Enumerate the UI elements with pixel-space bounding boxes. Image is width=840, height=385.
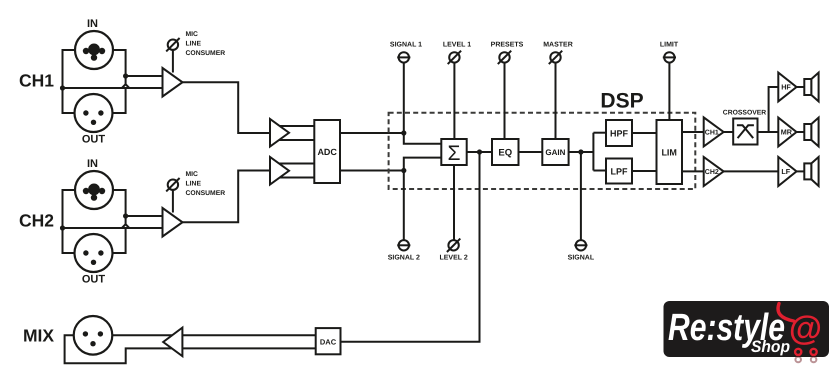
- svg-text:MASTER: MASTER: [543, 42, 573, 49]
- logo cart handle: [778, 304, 793, 322]
- svg-text:LEVEL 2: LEVEL 2: [439, 255, 467, 262]
- speaker LF: [804, 163, 811, 179]
- svg-text:LIM: LIM: [661, 147, 677, 157]
- svg-text:LPF: LPF: [611, 166, 629, 176]
- limiter block U7: [657, 120, 683, 184]
- op-amp A1 input stage CH1: [163, 68, 183, 97]
- DAC converter U9: [316, 328, 341, 354]
- wire DAC to mix amp upper: [112, 334, 315, 336]
- crossover block U8: [733, 119, 757, 145]
- potentiometer MIC/LINE/CONSUMER CH1: [168, 40, 178, 50]
- speaker HF: [804, 79, 811, 95]
- wire SIGNAL1 stem / step into sum: [404, 63, 442, 144]
- svg-text:LIMIT: LIMIT: [660, 42, 679, 49]
- wire CH1 IN/OUT right drop upper: [113, 50, 126, 85]
- label MIC LINE CONSUMER (CH1): [186, 31, 226, 57]
- svg-text:PRESETS: PRESETS: [491, 42, 524, 49]
- svg-text:MIC: MIC: [186, 171, 199, 178]
- svg-text:MIX: MIX: [23, 325, 54, 345]
- svg-text:ADC: ADC: [317, 147, 337, 157]
- amp MR: [778, 118, 796, 147]
- wire crossover out / MR feed: [758, 131, 779, 133]
- svg-text:OUT: OUT: [82, 134, 106, 146]
- logo cart wheel right: [811, 349, 817, 355]
- speaker MR: [804, 124, 811, 140]
- svg-text:CH1: CH1: [19, 71, 54, 91]
- wire filter riser: [592, 133, 594, 171]
- wire buffer B1 balanced pair to ADC: [272, 126, 314, 140]
- junction CH2 amp upper tap: [123, 213, 128, 218]
- svg-text:HF: HF: [781, 83, 791, 92]
- wire HPF to LIM: [632, 132, 657, 134]
- indicator LED SIGNAL 2: [399, 240, 409, 250]
- wire LIM out CH1: [682, 131, 704, 133]
- wire CH1 amp upper input: [126, 75, 163, 77]
- wire MR to speaker: [797, 131, 805, 133]
- svg-text:@: @: [789, 310, 822, 348]
- junction CH2 bus left: [60, 225, 65, 230]
- logo wheel reflections: [795, 357, 816, 363]
- svg-text:LF: LF: [781, 167, 790, 176]
- wire buffer B2 balanced pair to ADC: [272, 164, 314, 178]
- wire CH1 IN/OUT right drop lower: [112, 88, 125, 113]
- wire CH2 amp to LF: [724, 170, 779, 172]
- power amp CH1: [704, 117, 724, 146]
- svg-text:CH2: CH2: [705, 169, 719, 176]
- buffer B1 CH1: [270, 119, 289, 147]
- logo Re:style Shop panel: [664, 301, 830, 357]
- wire into HPF: [593, 132, 606, 134]
- wire PRESETS stem: [504, 63, 506, 139]
- svg-text:CONSUMER: CONSUMER: [186, 190, 226, 197]
- wire LIMIT stem: [668, 63, 670, 120]
- svg-text:LINE: LINE: [186, 40, 202, 47]
- wire ADC out 2: [340, 170, 404, 172]
- junction CH1 amp upper tap: [123, 73, 128, 78]
- svg-text:OUT: OUT: [82, 274, 106, 286]
- junction CH1 bus left: [60, 85, 65, 90]
- wire A2 output to ADC buffer: [183, 171, 271, 223]
- wire ADC out 1: [340, 132, 404, 134]
- wire CH2 IN/OUT left loop: [63, 190, 76, 253]
- svg-text:DSP: DSP: [600, 90, 643, 113]
- wire GAIN output: [569, 151, 594, 153]
- wire CH1 amp to crossover: [724, 131, 734, 133]
- logo cart wheel left: [795, 349, 801, 355]
- wire mix wrap-around lower: [65, 335, 316, 363]
- op-amp A2 input stage CH2: [163, 208, 183, 237]
- wire SIGNAL stem down: [580, 152, 582, 240]
- svg-text:CH2: CH2: [19, 211, 54, 231]
- wire sum bottom stem to LEVEL2: [453, 165, 455, 240]
- HPF block U5: [606, 120, 632, 146]
- svg-text:IN: IN: [87, 18, 98, 30]
- svg-text:LINE: LINE: [186, 180, 202, 187]
- potentiometer LEVEL 2: [448, 240, 458, 250]
- wire into LPF: [593, 170, 606, 172]
- wire LEVEL1 stem: [453, 63, 455, 139]
- svg-text:MR: MR: [781, 128, 793, 137]
- wire CH2 IN/OUT right drop upper: [113, 190, 126, 225]
- svg-text:CONSUMER: CONSUMER: [186, 50, 226, 57]
- svg-text:LEVEL 1: LEVEL 1: [443, 42, 471, 49]
- power amp CH2: [704, 157, 724, 186]
- wire CH1 IN/OUT left loop: [63, 50, 76, 113]
- wire sum output: [467, 151, 492, 153]
- EQ block U3: [492, 139, 519, 165]
- svg-text:SIGNAL 2: SIGNAL 2: [388, 255, 420, 262]
- wire hop over CH1 bus: [122, 84, 129, 88]
- junction DAC tap: [477, 149, 482, 154]
- svg-text:GAIN: GAIN: [545, 148, 565, 157]
- connector J1 XLR combo IN CH1: [75, 31, 113, 69]
- svg-text:Σ: Σ: [448, 142, 461, 165]
- junction SIGNAL tap: [578, 149, 583, 154]
- indicator LED SIGNAL (master): [576, 240, 586, 250]
- buffer B2 CH2: [270, 157, 289, 185]
- svg-text:SIGNAL 1: SIGNAL 1: [390, 42, 422, 49]
- amp LF: [778, 157, 796, 186]
- svg-text:HPF: HPF: [610, 128, 629, 138]
- wire HF to speaker: [797, 86, 805, 88]
- wire CH1 bus: [63, 87, 164, 89]
- svg-text:DAC: DAC: [320, 338, 337, 347]
- svg-text:CH1: CH1: [705, 130, 719, 137]
- connector J4 XLR OUT CH2: [75, 234, 113, 272]
- wire CH2 amp upper input: [126, 215, 163, 217]
- DSP dashed boundary box: [389, 113, 696, 189]
- wire LIM out CH2: [682, 170, 704, 172]
- connector J3 XLR combo IN CH2: [75, 171, 113, 209]
- connector J5 XLR MIX: [74, 316, 113, 355]
- connector J2 XLR OUT CH1: [75, 94, 113, 132]
- label MIC LINE CONSUMER (CH2): [186, 171, 226, 197]
- svg-text:EQ: EQ: [498, 147, 512, 158]
- svg-text:IN: IN: [87, 158, 98, 170]
- svg-text:CROSSOVER: CROSSOVER: [723, 109, 767, 116]
- junction signal2 tap: [401, 168, 406, 173]
- wire hop over CH2 bus: [122, 224, 129, 228]
- wire EQ to GAIN: [519, 151, 543, 153]
- wire HF branch riser: [769, 87, 779, 132]
- wire CH2 IN/OUT right drop lower: [112, 228, 125, 253]
- GAIN block U4: [542, 139, 568, 165]
- wire CH2 bus: [63, 227, 164, 229]
- svg-text:SIGNAL: SIGNAL: [568, 255, 595, 262]
- summing block U2: [441, 139, 466, 165]
- wire A1 output to ADC buffer: [183, 82, 271, 133]
- LPF block U6: [606, 159, 632, 184]
- wire LPF to LIM: [632, 170, 657, 172]
- svg-text:Shop: Shop: [751, 338, 790, 356]
- junction signal1 tap: [401, 130, 406, 135]
- potentiometer MIC/LINE/CONSUMER CH2: [168, 180, 178, 190]
- amp HF: [778, 73, 796, 102]
- svg-text:MIC: MIC: [186, 31, 199, 38]
- wire DAC feed: [341, 152, 480, 342]
- op-amp A3 mix output driver: [163, 328, 182, 357]
- wire LF to speaker: [797, 170, 805, 172]
- wire MASTER stem: [555, 63, 557, 139]
- ADC converter U1: [314, 120, 340, 183]
- wire SIGNAL2 riser / step into sum: [404, 158, 442, 241]
